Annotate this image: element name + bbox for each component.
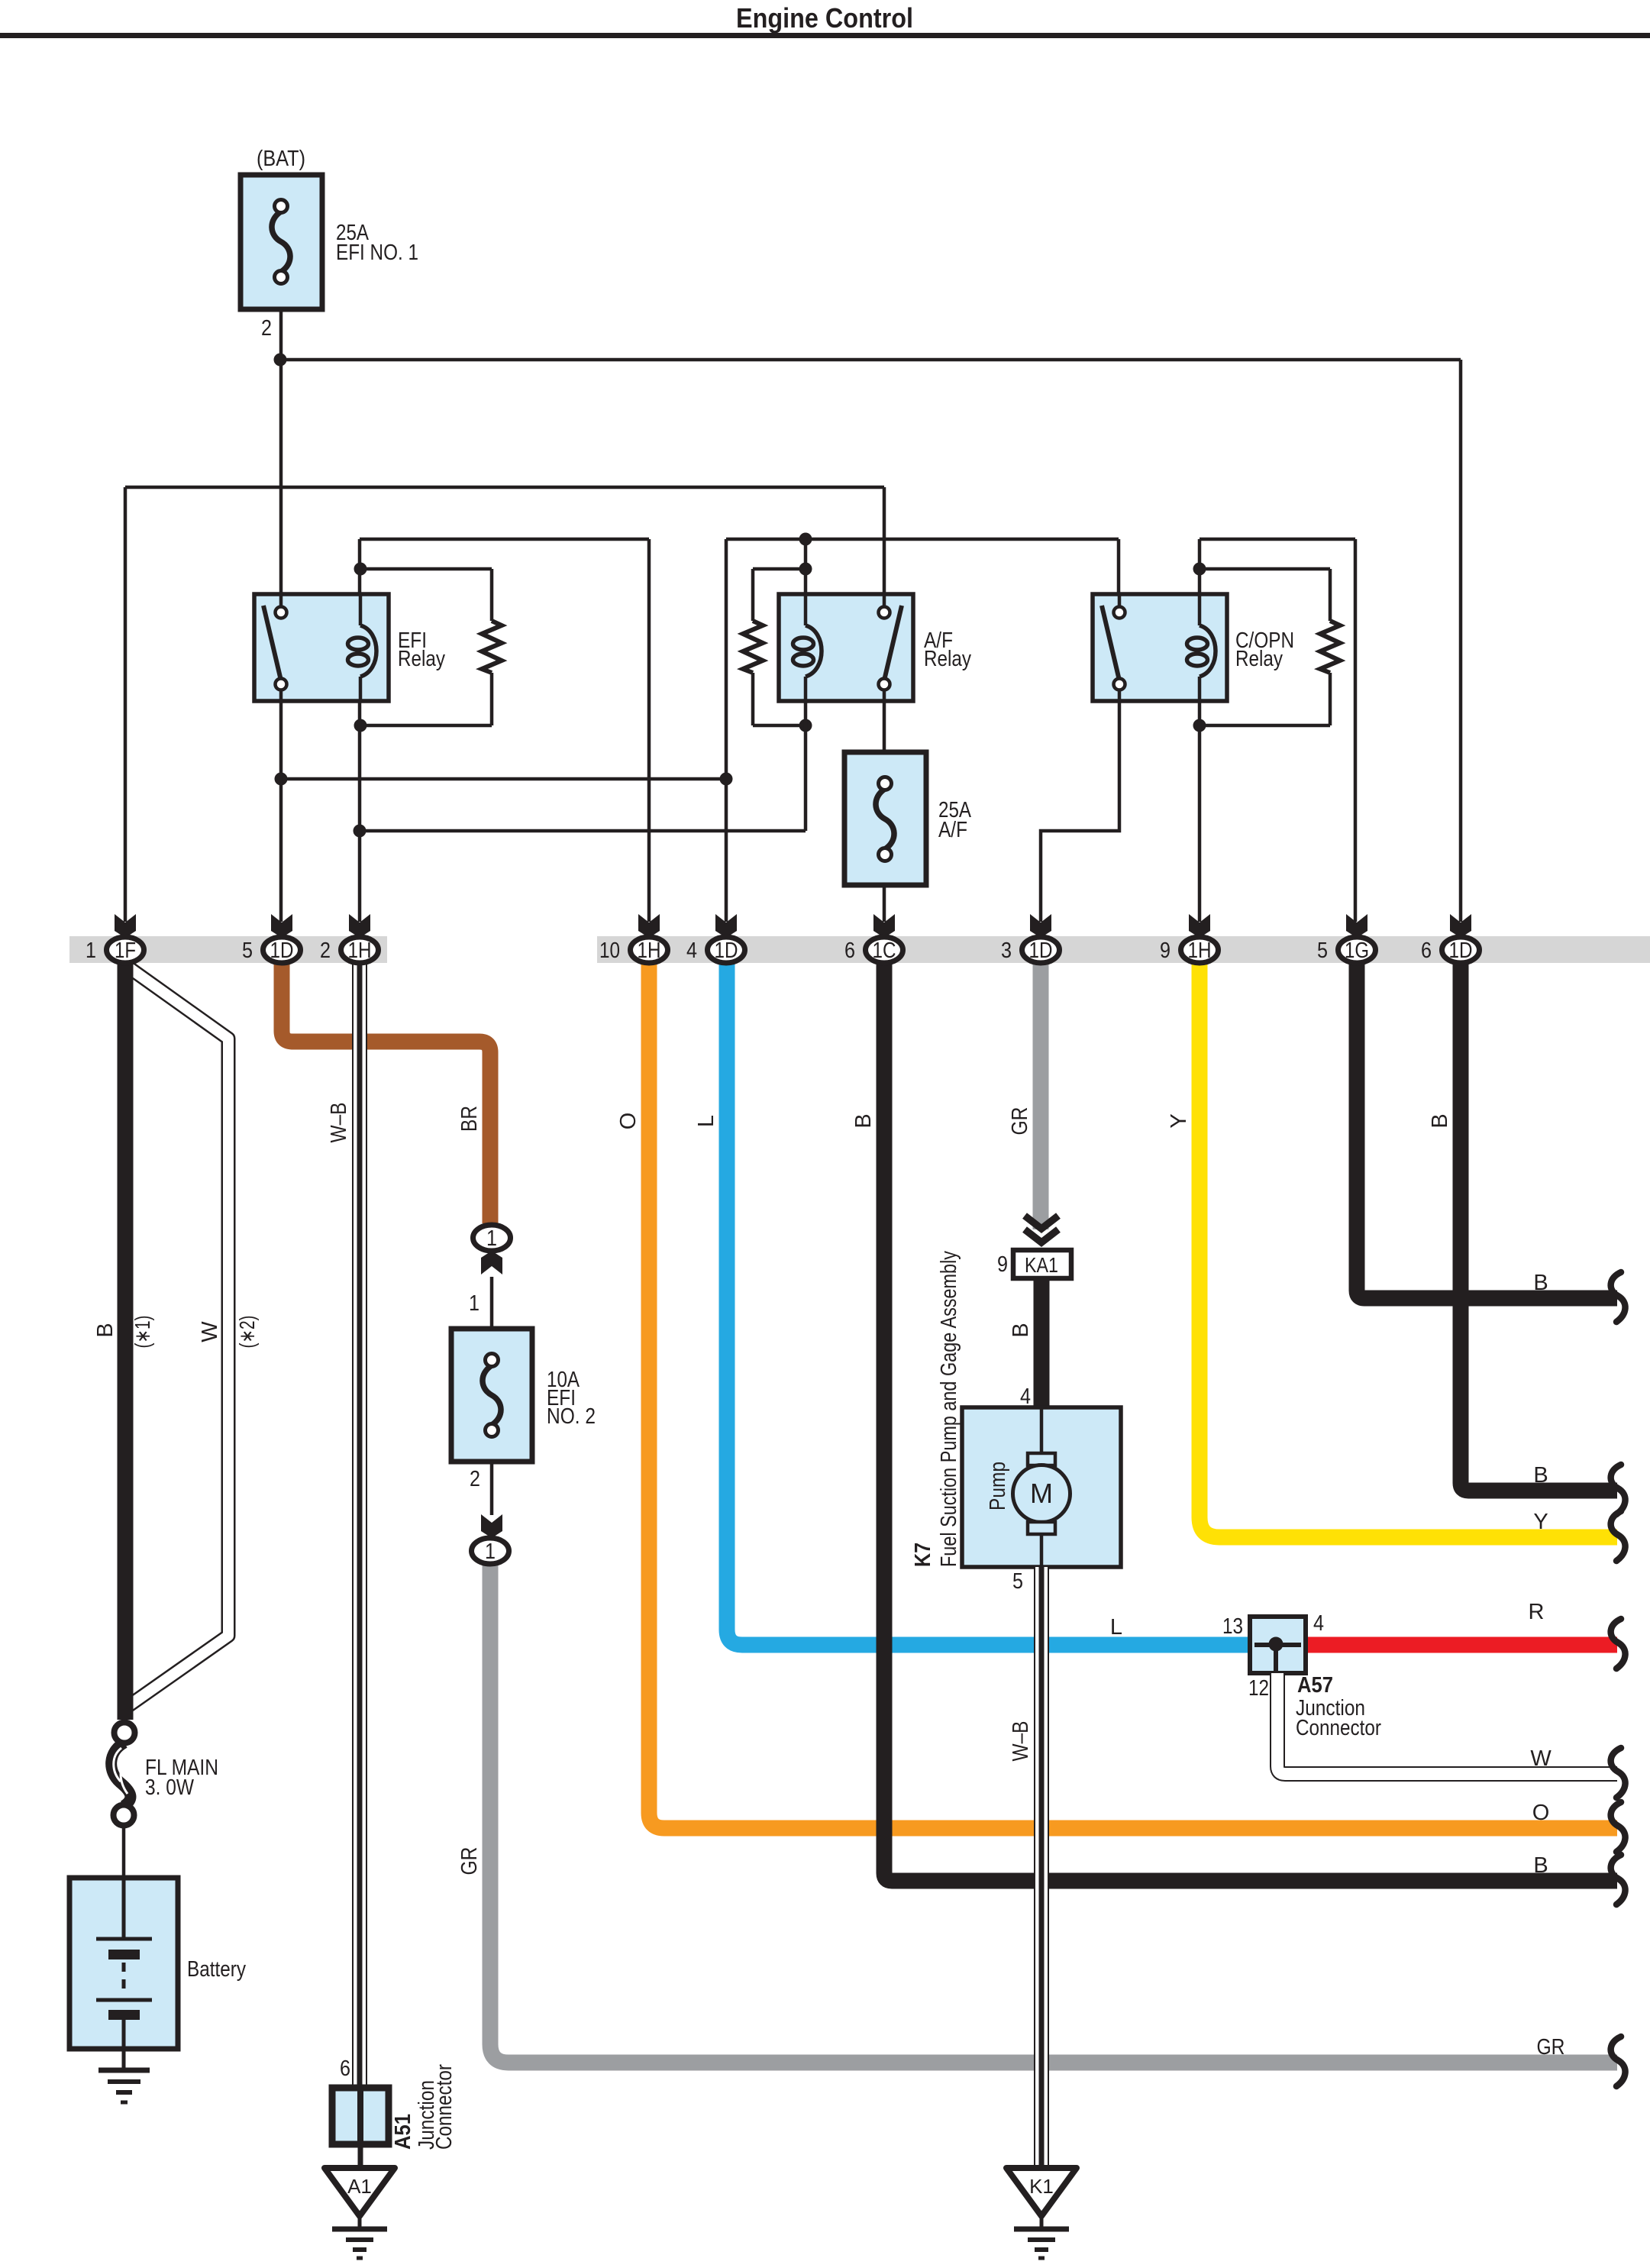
svg-text:1D: 1D bbox=[715, 939, 738, 963]
svg-text:Relay: Relay bbox=[924, 647, 971, 671]
svg-text:L: L bbox=[694, 1115, 718, 1127]
svg-text:Battery: Battery bbox=[187, 1957, 246, 1982]
svg-text:(BAT): (BAT) bbox=[257, 147, 305, 171]
svg-text:1: 1 bbox=[485, 1539, 496, 1564]
svg-text:Engine Control: Engine Control bbox=[736, 2, 913, 34]
svg-text:1: 1 bbox=[86, 939, 96, 963]
svg-text:W: W bbox=[1530, 1746, 1552, 1771]
svg-text:B: B bbox=[1428, 1113, 1452, 1128]
svg-text:1: 1 bbox=[469, 1291, 480, 1316]
svg-text:1C: 1C bbox=[873, 939, 896, 963]
svg-text:3: 3 bbox=[1001, 939, 1012, 963]
svg-text:O: O bbox=[616, 1113, 641, 1130]
svg-text:Relay: Relay bbox=[398, 647, 445, 671]
svg-text:1F: 1F bbox=[115, 939, 136, 963]
svg-text:1G: 1G bbox=[1345, 939, 1369, 963]
svg-text:1H: 1H bbox=[638, 939, 661, 963]
svg-text:K7: K7 bbox=[911, 1543, 935, 1567]
svg-text:L: L bbox=[1110, 1615, 1122, 1640]
svg-text:6: 6 bbox=[1421, 939, 1432, 963]
svg-text:KA1: KA1 bbox=[1025, 1253, 1058, 1277]
svg-text:W–B: W–B bbox=[327, 1103, 351, 1143]
svg-text:5: 5 bbox=[1317, 939, 1328, 963]
svg-text:1H: 1H bbox=[1188, 939, 1212, 963]
svg-text:R: R bbox=[1529, 1600, 1545, 1624]
svg-text:Connector: Connector bbox=[432, 2064, 457, 2150]
svg-text:B: B bbox=[1533, 1271, 1548, 1295]
svg-text:Connector: Connector bbox=[1296, 1716, 1381, 1740]
svg-text:3. 0W: 3. 0W bbox=[145, 1775, 195, 1800]
svg-text:13: 13 bbox=[1222, 1614, 1243, 1639]
svg-text:9: 9 bbox=[1160, 939, 1170, 963]
svg-text:A1: A1 bbox=[347, 2175, 372, 2198]
svg-text:9: 9 bbox=[997, 1252, 1008, 1277]
svg-text:W–B: W–B bbox=[1009, 1721, 1033, 1762]
svg-text:4: 4 bbox=[1313, 1611, 1324, 1636]
svg-text:K1: K1 bbox=[1029, 2175, 1054, 2198]
svg-text:GR: GR bbox=[1008, 1107, 1032, 1136]
svg-text:1D: 1D bbox=[1449, 939, 1473, 963]
svg-text:B: B bbox=[851, 1113, 876, 1128]
svg-text:4: 4 bbox=[1020, 1384, 1031, 1409]
svg-text:B: B bbox=[1533, 1853, 1548, 1878]
svg-text:GR: GR bbox=[1537, 2035, 1565, 2060]
svg-text:Relay: Relay bbox=[1235, 647, 1283, 671]
svg-text:B: B bbox=[1533, 1463, 1548, 1488]
svg-text:2: 2 bbox=[261, 316, 272, 341]
svg-text:A57: A57 bbox=[1297, 1673, 1333, 1698]
svg-text:4: 4 bbox=[686, 939, 697, 963]
svg-text:B: B bbox=[93, 1323, 118, 1337]
svg-text:W: W bbox=[198, 1321, 222, 1342]
svg-text:NO. 2: NO. 2 bbox=[547, 1404, 596, 1429]
svg-text:2: 2 bbox=[470, 1467, 480, 1491]
svg-text:(∗1): (∗1) bbox=[131, 1316, 154, 1349]
svg-text:B: B bbox=[1009, 1323, 1033, 1337]
svg-text:10: 10 bbox=[599, 939, 620, 963]
svg-text:6: 6 bbox=[340, 2056, 350, 2081]
svg-text:BR: BR bbox=[457, 1106, 482, 1132]
svg-text:(∗2): (∗2) bbox=[235, 1316, 259, 1349]
svg-text:1D: 1D bbox=[1029, 939, 1053, 963]
svg-text:Y: Y bbox=[1533, 1510, 1548, 1534]
svg-text:1D: 1D bbox=[270, 939, 294, 963]
svg-text:1H: 1H bbox=[348, 939, 372, 963]
svg-text:M: M bbox=[1030, 1478, 1053, 1509]
svg-text:Pump: Pump bbox=[986, 1462, 1010, 1510]
svg-text:EFI NO. 1: EFI NO. 1 bbox=[336, 241, 418, 265]
svg-text:5: 5 bbox=[242, 939, 253, 963]
svg-text:O: O bbox=[1532, 1801, 1550, 1825]
svg-text:2: 2 bbox=[320, 939, 331, 963]
svg-text:Y: Y bbox=[1167, 1113, 1191, 1128]
svg-text:12: 12 bbox=[1248, 1676, 1269, 1701]
svg-text:GR: GR bbox=[457, 1847, 482, 1875]
svg-text:A/F: A/F bbox=[938, 818, 967, 842]
svg-text:Fuel Suction Pump and Gage Ass: Fuel Suction Pump and Gage Assembly bbox=[937, 1251, 961, 1567]
svg-text:6: 6 bbox=[844, 939, 855, 963]
svg-text:1: 1 bbox=[486, 1226, 497, 1251]
svg-text:5: 5 bbox=[1012, 1569, 1023, 1594]
svg-text:A51: A51 bbox=[391, 2114, 415, 2150]
